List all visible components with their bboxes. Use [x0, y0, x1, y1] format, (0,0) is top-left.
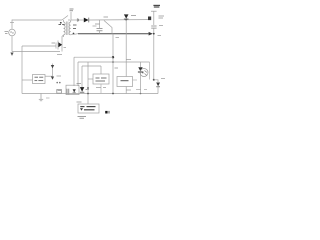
wire feedback lower [78, 61, 150, 63]
wire drain vertical [62, 35, 64, 52]
label left of mosfet [52, 42, 56, 44]
label dots below drive [56, 82, 60, 84]
feedback box U6 [93, 74, 109, 84]
label shunt text [121, 80, 129, 82]
diode VD6 bar [156, 86, 160, 88]
label right of VD3 [86, 89, 90, 91]
label below shunt [126, 89, 131, 91]
node rail zener junction [125, 19, 127, 21]
label under mosfet [57, 54, 62, 56]
label VD2 [131, 15, 136, 17]
label right of secondary [73, 25, 77, 29]
wire power flag down [153, 11, 155, 25]
resistor R4 [57, 90, 62, 94]
opto led circle U3a [140, 69, 148, 77]
mosfet body arrow [58, 42, 62, 47]
label C1 [93, 25, 97, 27]
arrow current direction [10, 53, 13, 56]
mosfet Q1 [56, 41, 58, 50]
diode VD1 cathode bar [88, 18, 90, 23]
wire left loop vertical [21, 46, 23, 94]
node phase dot primary [60, 22, 62, 24]
wire ref stub [133, 79, 138, 81]
node junction c1 [99, 20, 101, 28]
wire bottom rail [22, 93, 158, 95]
ground under regulator [78, 117, 87, 119]
wire feedback box top [100, 66, 102, 74]
label regulator text [80, 107, 95, 110]
wire rail after diode [89, 19, 148, 21]
node rail dot zener [140, 93, 142, 95]
optocoupler led diode [73, 89, 76, 92]
wire pwm vertical [87, 62, 89, 104]
wire vd3 drop [81, 66, 83, 88]
label regulator wedge [80, 108, 83, 110]
zener VD2 bar [124, 18, 129, 20]
wire drive vertical [52, 64, 54, 77]
label T1 [70, 9, 74, 11]
wire capacitor C1 bottom [99, 31, 101, 34]
node right vertical dot [153, 79, 155, 81]
shunt ic U5 box [117, 77, 133, 87]
opto arrows [145, 71, 148, 76]
label VD1 [95, 23, 100, 25]
wire third feedback line [82, 65, 101, 67]
wire left vertical to source [11, 20, 13, 29]
label switch [59, 24, 65, 26]
node pwm rail dot [87, 93, 89, 95]
wire feedback box left [88, 78, 93, 80]
label right of VD6 [161, 78, 165, 80]
wire label stub [70, 12, 72, 20]
ac source u1 [9, 29, 16, 36]
wire gate [22, 45, 56, 47]
label C5 [159, 16, 165, 18]
label node A [115, 67, 119, 69]
label on rail right a [136, 89, 141, 91]
zener VD5 [138, 67, 142, 71]
wire diagonal tap [104, 21, 112, 34]
wire right vertical [153, 28, 155, 80]
node output junction [153, 33, 155, 35]
control ic U2 box [33, 75, 46, 84]
label feedback text [96, 78, 107, 81]
wire lower-left horizontal [12, 51, 60, 53]
optocoupler led bar [73, 92, 76, 94]
transformer T secondary winding [69, 20, 71, 35]
component end of rail [148, 17, 151, 21]
node tick on rail [77, 18, 78, 21]
arrow drive lower [51, 77, 54, 80]
arrow drive upper [51, 65, 54, 68]
wire sense vertical [112, 34, 114, 94]
label above feedback [126, 59, 131, 61]
label u [5, 32, 9, 34]
transformer T primary winding [64, 20, 66, 37]
wire zener top [140, 62, 142, 67]
ground stub [39, 94, 43, 101]
regulator ic U4 box [78, 104, 99, 113]
label on rail right b [144, 89, 147, 91]
label on rail left [58, 90, 62, 92]
arrow output [149, 32, 153, 36]
wire right elbow [154, 80, 158, 82]
label left of regulator [77, 101, 82, 103]
diode VD3 bar [80, 91, 84, 93]
diode VD6 [156, 83, 160, 87]
wire secondary top to diode [71, 19, 85, 21]
diode VD1 [84, 18, 89, 23]
zener VD5 bar [138, 72, 143, 73]
label above diode [77, 83, 82, 85]
label near ground [46, 97, 50, 99]
capacitor C5 [151, 26, 156, 28]
wire opto cathode vertical [77, 62, 79, 86]
label near C5 [159, 25, 163, 27]
label right of drive [57, 75, 62, 77]
node lower junction [112, 61, 114, 63]
label near sense top [116, 37, 120, 39]
label right of mosfet [64, 47, 67, 49]
wire opto collector [149, 62, 151, 80]
label right of output node [158, 35, 162, 37]
wire opto anode vertical [73, 57, 75, 86]
wire zener down to ic box [125, 20, 127, 77]
wire source to bottom [11, 36, 13, 52]
label 24V power [153, 5, 160, 7]
node rail dot sense [112, 93, 114, 95]
wire shunt bottom [125, 87, 127, 94]
diode VD3 [80, 87, 84, 92]
figure label numeral [108, 111, 110, 114]
switch S [62, 16, 70, 21]
node sense junction [112, 56, 114, 58]
node phase dot secondary [73, 33, 75, 35]
node tick on left vertical [10, 22, 14, 24]
figure label square [105, 111, 107, 114]
wire zener bottom [140, 72, 142, 93]
wire output line dark [78, 33, 149, 35]
zener VD2 [124, 14, 129, 18]
wire feedback upper [74, 56, 113, 58]
label below feedback box [96, 87, 106, 89]
transformer core [66, 22, 68, 36]
capacitor C1 [97, 29, 103, 31]
label control ic text [35, 77, 44, 80]
node pwm dot [87, 87, 89, 89]
wire to control box [22, 79, 33, 81]
wire top-left rail [12, 19, 62, 21]
wire secondary bottom to output [71, 34, 78, 35]
optocoupler led plates [67, 89, 69, 95]
wire box to drive node [45, 75, 53, 77]
optocoupler U3 box [66, 85, 79, 94]
label above rail [104, 16, 109, 18]
power flag bar [151, 10, 157, 12]
wire VD6 to rail [157, 87, 159, 94]
wire feedback box bottom [100, 84, 102, 94]
